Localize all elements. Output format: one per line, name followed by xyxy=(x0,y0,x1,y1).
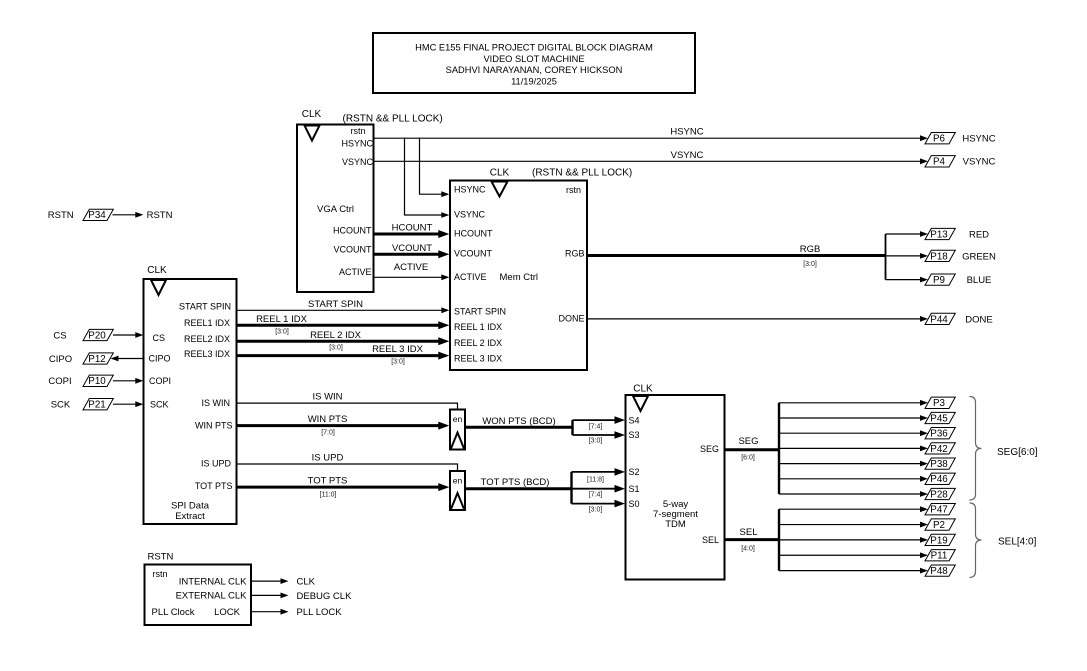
svg-text:TOT PTS: TOT PTS xyxy=(195,481,233,491)
port P34 xyxy=(83,209,113,221)
block U4 5-way 7-segment TDM xyxy=(626,384,725,580)
port P36 xyxy=(925,428,955,440)
wire SEG2 branch to P36 xyxy=(779,430,928,436)
svg-text:11/19/2025: 11/19/2025 xyxy=(511,76,557,86)
svg-text:S2: S2 xyxy=(629,467,640,477)
svg-text:en: en xyxy=(453,414,463,424)
svg-text:RSTN: RSTN xyxy=(48,210,74,221)
svg-text:REEL 1 IDX: REEL 1 IDX xyxy=(454,322,502,332)
svg-text:P38: P38 xyxy=(930,459,948,470)
wire S0 branch xyxy=(572,500,626,514)
svg-text:VCOUNT: VCOUNT xyxy=(454,249,493,259)
svg-text:EXTERNAL CLK: EXTERNAL CLK xyxy=(176,591,248,602)
svg-text:P44: P44 xyxy=(930,314,948,325)
svg-text:(RSTN && PLL LOCK): (RSTN && PLL LOCK) xyxy=(532,168,632,179)
wire SEL3 branch to P11 xyxy=(779,552,928,558)
svg-text:HSYNC: HSYNC xyxy=(962,134,995,145)
svg-text:CIPO: CIPO xyxy=(149,354,171,364)
svg-text:P45: P45 xyxy=(930,413,948,424)
svg-text:VCOUNT: VCOUNT xyxy=(334,244,373,254)
svg-text:CLK: CLK xyxy=(302,109,322,120)
node SEG fan xyxy=(778,403,780,494)
port P48 xyxy=(925,565,955,577)
svg-text:HCOUNT: HCOUNT xyxy=(333,226,372,236)
register REG1 (won pts) xyxy=(450,410,465,450)
svg-text:HSYNC: HSYNC xyxy=(341,139,373,149)
node TOT fan xyxy=(570,472,572,504)
bus SEG xyxy=(725,436,779,461)
svg-text:P21: P21 xyxy=(88,400,105,411)
svg-text:P28: P28 xyxy=(930,489,948,500)
svg-text:HCOUNT: HCOUNT xyxy=(392,223,433,234)
bus REEL 3 IDX xyxy=(237,344,450,366)
wire COPI xyxy=(113,378,143,384)
svg-text:ACTIVE: ACTIVE xyxy=(394,262,428,273)
clock triangle U4 xyxy=(633,396,648,411)
port P13 xyxy=(925,228,955,240)
svg-text:P11: P11 xyxy=(931,551,948,562)
svg-text:WIN PTS: WIN PTS xyxy=(195,420,233,430)
svg-text:[3:0]: [3:0] xyxy=(589,438,603,445)
block U5 PLL Clock xyxy=(145,552,252,625)
wire START SPIN xyxy=(237,299,450,313)
port P4 xyxy=(925,156,955,168)
svg-text:REEL1 IDX: REEL1 IDX xyxy=(184,318,230,328)
svg-text:[7:4]: [7:4] xyxy=(589,423,603,430)
port P46 xyxy=(925,473,955,485)
svg-text:(RSTN && PLL LOCK): (RSTN && PLL LOCK) xyxy=(343,114,443,125)
bus VCOUNT xyxy=(374,243,450,258)
svg-text:[3:0]: [3:0] xyxy=(589,507,603,514)
svg-text:RED: RED xyxy=(969,229,989,240)
port P44 xyxy=(925,313,955,325)
wire SEL1 branch to P2 xyxy=(779,522,928,528)
block U2 Mem Ctrl xyxy=(450,168,632,371)
svg-text:P47: P47 xyxy=(930,505,947,516)
port P2 xyxy=(925,519,955,531)
svg-text:P10: P10 xyxy=(88,376,106,387)
port P3 xyxy=(925,397,955,409)
block U3 SPI Data Extract xyxy=(144,265,237,524)
wire ACTIVE xyxy=(374,262,450,280)
svg-text:P20: P20 xyxy=(88,330,106,341)
svg-text:Extract: Extract xyxy=(175,511,205,522)
port P38 xyxy=(925,458,955,470)
svg-text:CLK: CLK xyxy=(147,265,167,276)
svg-text:RSTN: RSTN xyxy=(147,210,173,221)
svg-text:GREEN: GREEN xyxy=(962,251,996,262)
svg-text:TOT PTS: TOT PTS xyxy=(308,476,348,487)
wire RED branch xyxy=(886,231,929,237)
svg-text:COPI: COPI xyxy=(48,376,71,387)
wire LOCK out xyxy=(251,609,289,615)
svg-text:ACTIVE: ACTIVE xyxy=(454,272,487,282)
bus RGB xyxy=(587,244,885,268)
svg-text:P12: P12 xyxy=(88,354,105,365)
svg-text:P4: P4 xyxy=(933,157,946,168)
bus REEL 1 IDX xyxy=(237,314,450,336)
wire CIPO xyxy=(111,356,144,362)
svg-text:CIPO: CIPO xyxy=(49,354,72,365)
svg-text:P6: P6 xyxy=(933,134,946,145)
port P45 xyxy=(925,412,955,424)
svg-text:WIN PTS: WIN PTS xyxy=(308,414,348,425)
svg-text:S1: S1 xyxy=(629,484,640,494)
svg-text:LOCK: LOCK xyxy=(214,607,241,618)
svg-text:P46: P46 xyxy=(930,474,948,485)
svg-text:P9: P9 xyxy=(933,275,945,286)
wire branch to Mem VSYNC xyxy=(405,138,450,218)
svg-text:REEL 3 IDX: REEL 3 IDX xyxy=(454,353,502,363)
svg-text:TOT PTS (BCD): TOT PTS (BCD) xyxy=(481,477,550,488)
clock triangle U2 xyxy=(492,182,508,197)
register REG2 (tot pts) xyxy=(450,471,465,510)
svg-text:HSYNC: HSYNC xyxy=(670,127,703,138)
svg-text:RSTN: RSTN xyxy=(148,552,174,563)
svg-text:RGB: RGB xyxy=(565,249,585,259)
svg-text:IS WIN: IS WIN xyxy=(202,398,231,408)
svg-text:DONE: DONE xyxy=(965,314,992,325)
bus SEL xyxy=(725,527,779,552)
svg-text:rstn: rstn xyxy=(566,185,581,195)
svg-text:START SPIN: START SPIN xyxy=(454,306,506,316)
svg-text:START SPIN: START SPIN xyxy=(179,301,231,311)
port P47 xyxy=(925,504,955,516)
svg-text:SEG: SEG xyxy=(738,436,758,447)
svg-text:RGB: RGB xyxy=(800,244,821,255)
svg-text:CLK: CLK xyxy=(490,168,510,179)
wire SEG1 branch to P45 xyxy=(779,415,928,421)
bus REEL 2 IDX xyxy=(237,330,450,352)
wire SEG6 branch to P28 xyxy=(779,491,928,497)
bus WON PTS (BCD) xyxy=(465,416,573,428)
svg-text:IS WIN: IS WIN xyxy=(312,392,342,403)
svg-text:HSYNC: HSYNC xyxy=(454,185,486,195)
port P12 xyxy=(83,353,113,365)
port P6 xyxy=(925,133,955,145)
svg-text:REEL2 IDX: REEL2 IDX xyxy=(184,334,230,344)
title box xyxy=(373,33,695,93)
bus WIN PTS xyxy=(237,414,450,437)
svg-text:REEL 2 IDX: REEL 2 IDX xyxy=(310,330,362,341)
svg-text:[3:0]: [3:0] xyxy=(329,344,343,351)
svg-text:VSYNC: VSYNC xyxy=(454,209,486,219)
wire S4 branch xyxy=(573,416,626,430)
wire HSYNC (VGA to P6) xyxy=(374,127,929,142)
node WON fan xyxy=(571,420,573,435)
port P19 xyxy=(925,534,955,546)
wire S2 branch xyxy=(572,468,626,483)
clock triangle U3 xyxy=(151,280,166,295)
svg-text:SCK: SCK xyxy=(150,399,169,409)
wire S3 branch xyxy=(573,431,626,445)
port P10 xyxy=(83,375,113,387)
svg-text:REEL 1 IDX: REEL 1 IDX xyxy=(256,314,308,325)
svg-text:REEL 3 IDX: REEL 3 IDX xyxy=(372,344,424,355)
svg-text:[6:0]: [6:0] xyxy=(741,454,755,461)
port P28 xyxy=(925,488,955,500)
port P42 xyxy=(925,443,955,455)
port P20 xyxy=(83,329,113,341)
svg-text:WON PTS (BCD): WON PTS (BCD) xyxy=(482,416,555,427)
port P18 xyxy=(925,250,955,262)
svg-text:VSYNC: VSYNC xyxy=(342,157,374,167)
wire SEG4 branch to P38 xyxy=(779,461,928,467)
svg-text:BLUE: BLUE xyxy=(967,275,992,286)
svg-text:rstn: rstn xyxy=(350,126,365,136)
svg-text:P19: P19 xyxy=(930,535,947,546)
wire RSTN input xyxy=(113,212,144,218)
wire SEL2 branch to P19 xyxy=(779,537,928,543)
svg-text:SEL: SEL xyxy=(702,535,719,545)
block U1 VGA Ctrl xyxy=(297,109,443,292)
wire VSYNC (VGA to P4) xyxy=(374,150,929,164)
svg-text:P36: P36 xyxy=(930,429,948,440)
wire IS UPD xyxy=(237,453,458,471)
wire SEG3 branch to P42 xyxy=(779,446,928,452)
bus TOT PTS (BCD) xyxy=(465,477,572,489)
svg-text:VIDEO SLOT MACHINE: VIDEO SLOT MACHINE xyxy=(483,54,584,64)
svg-text:PLL LOCK: PLL LOCK xyxy=(297,607,343,618)
svg-text:TDM: TDM xyxy=(665,519,686,530)
svg-text:rstn: rstn xyxy=(153,569,168,579)
wire S1 branch xyxy=(572,485,626,499)
wire INTERNAL CLK out xyxy=(251,578,289,584)
svg-text:P18: P18 xyxy=(930,251,948,262)
svg-text:SEG: SEG xyxy=(700,444,719,454)
svg-text:DEBUG CLK: DEBUG CLK xyxy=(297,591,353,602)
wire DONE xyxy=(587,316,928,322)
svg-text:CS: CS xyxy=(53,330,66,341)
svg-text:REEL3 IDX: REEL3 IDX xyxy=(184,349,230,359)
svg-text:S3: S3 xyxy=(629,430,640,440)
svg-text:P13: P13 xyxy=(930,229,948,240)
svg-text:COPI: COPI xyxy=(149,376,171,386)
svg-text:HCOUNT: HCOUNT xyxy=(454,228,493,238)
svg-text:SADHVI NARAYANAN, COREY HICKSO: SADHVI NARAYANAN, COREY HICKSON xyxy=(446,65,623,75)
svg-text:CS: CS xyxy=(153,333,166,343)
svg-text:S0: S0 xyxy=(629,499,640,509)
svg-text:CLK: CLK xyxy=(633,384,653,395)
svg-text:SEG[6:0]: SEG[6:0] xyxy=(997,447,1038,458)
svg-text:[3:0]: [3:0] xyxy=(391,359,405,366)
node SEL fan xyxy=(778,509,780,570)
svg-text:VCOUNT: VCOUNT xyxy=(392,243,432,254)
wire branch to Mem HSYNC xyxy=(420,138,450,197)
svg-text:Mem Ctrl: Mem Ctrl xyxy=(500,272,539,283)
svg-text:IS UPD: IS UPD xyxy=(201,458,232,468)
svg-text:[3:0]: [3:0] xyxy=(803,261,817,268)
svg-text:P34: P34 xyxy=(88,210,106,221)
wire GREEN branch xyxy=(886,253,929,259)
port P9 xyxy=(925,274,955,286)
wire SEL4 branch to P48 xyxy=(779,568,928,574)
svg-text:P3: P3 xyxy=(933,398,946,409)
svg-text:P2: P2 xyxy=(933,520,945,531)
node RGB fan xyxy=(885,234,887,280)
svg-text:HMC E155 FINAL PROJECT DIGITAL: HMC E155 FINAL PROJECT DIGITAL BLOCK DIA… xyxy=(415,43,653,53)
port P21 xyxy=(83,399,113,411)
svg-text:VGA Ctrl: VGA Ctrl xyxy=(317,204,354,215)
svg-text:[7:0]: [7:0] xyxy=(321,430,335,437)
svg-text:[11:0]: [11:0] xyxy=(320,492,337,499)
svg-text:en: en xyxy=(453,476,463,486)
wire BLUE branch xyxy=(886,277,929,283)
svg-text:[7:4]: [7:4] xyxy=(589,492,603,499)
svg-text:P42: P42 xyxy=(930,444,947,455)
svg-text:SEL[4:0]: SEL[4:0] xyxy=(998,537,1037,548)
brace SEG group xyxy=(970,397,982,501)
svg-text:DONE: DONE xyxy=(558,313,584,323)
wire CS xyxy=(113,332,143,338)
svg-text:SPI Data: SPI Data xyxy=(171,500,210,511)
svg-text:SEL: SEL xyxy=(740,527,758,538)
svg-text:PLL Clock: PLL Clock xyxy=(152,607,195,618)
bus HCOUNT xyxy=(374,223,450,239)
brace SEL group xyxy=(970,503,982,577)
svg-text:[11:8]: [11:8] xyxy=(587,476,604,483)
wire SEG5 branch to P46 xyxy=(779,476,928,482)
svg-text:CLK: CLK xyxy=(297,576,316,587)
svg-text:IS UPD: IS UPD xyxy=(312,453,344,464)
wire SCK xyxy=(113,401,143,407)
svg-text:INTERNAL CLK: INTERNAL CLK xyxy=(179,576,247,587)
svg-text:S4: S4 xyxy=(629,415,640,425)
svg-text:START SPIN: START SPIN xyxy=(308,299,363,310)
svg-text:ACTIVE: ACTIVE xyxy=(339,267,372,277)
clock triangle U1 xyxy=(305,126,320,141)
wire IS WIN xyxy=(237,392,458,409)
port P11 xyxy=(925,550,955,562)
wire SEL0 branch to P47 xyxy=(779,506,928,512)
svg-text:P48: P48 xyxy=(930,566,948,577)
bus TOT PTS xyxy=(237,476,450,499)
svg-text:[3:0]: [3:0] xyxy=(275,328,289,335)
svg-text:VSYNC: VSYNC xyxy=(963,157,996,168)
wire SEG0 branch to P3 xyxy=(779,400,928,406)
svg-text:REEL 2 IDX: REEL 2 IDX xyxy=(454,338,502,348)
svg-text:VSYNC: VSYNC xyxy=(671,150,704,161)
svg-text:[4:0]: [4:0] xyxy=(741,545,755,552)
wire EXTERNAL CLK out xyxy=(251,593,289,599)
svg-text:SCK: SCK xyxy=(51,400,71,411)
